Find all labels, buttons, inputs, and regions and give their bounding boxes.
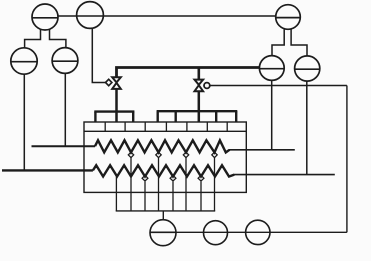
resistor row 2	[93, 165, 234, 176]
terminal strip cell dividers	[105, 122, 227, 131]
tap diamond row 1 d	[212, 152, 217, 157]
wire C drop to lower bus	[23, 74, 25, 169]
wire row 1 right lead	[229, 149, 295, 151]
wire lower left bus to row 2	[2, 169, 93, 171]
instrument circle C	[11, 48, 37, 74]
wire bottom bus	[116, 210, 216, 212]
tap diamond row 2 b	[170, 175, 176, 181]
tap diamond row 1 a	[128, 152, 133, 157]
resistor row 1	[95, 140, 230, 152]
wire right rail down	[346, 86, 348, 233]
instrument circle E	[276, 5, 301, 30]
wire V2 stem from supply bar	[198, 68, 201, 80]
wire stem from bus to H	[162, 211, 164, 220]
wire thick supply bar linking V1, V2 and F	[117, 68, 260, 78]
instrument circle B	[77, 2, 104, 29]
valve V2 actuator circle	[204, 83, 210, 89]
instrument circle F	[259, 56, 284, 81]
wire bottom run H to right rail	[176, 231, 347, 233]
wire V1 stem down through clamp 1	[115, 89, 118, 122]
tap diamond row 1 c	[183, 152, 188, 157]
tap diamond row 2 c	[198, 175, 204, 181]
instrument circle A	[32, 4, 58, 30]
wire F drop to resistor row 1 lead	[271, 80, 273, 149]
wire upper left bus to row 1	[32, 145, 96, 147]
wire tap drops to bottom bus	[116, 158, 214, 211]
tap diamond row 2 a	[142, 175, 148, 181]
clamp bus 2	[157, 111, 238, 122]
instrument circle D	[52, 48, 78, 74]
instrument circle J	[246, 220, 270, 244]
heater box terminal strip divider	[84, 130, 246, 132]
wire from V2 actuator to right rail	[210, 85, 347, 87]
manifold fork from A to C and D	[25, 29, 66, 47]
wire row 2 right lead	[234, 174, 335, 176]
heater box outline	[84, 122, 246, 192]
wire top header A-B-E	[58, 15, 277, 17]
instrument circle H	[150, 220, 176, 246]
wire G drop to resistor row 2 lead	[306, 81, 308, 175]
valve V1 body	[112, 77, 121, 89]
wire V2 stem down through clamp 2	[198, 91, 201, 122]
wire from B down and over to valve V1 actuator	[92, 28, 105, 82]
clamp bus 1	[94, 112, 134, 123]
instrument circle G	[295, 56, 320, 81]
instrument circle I	[204, 221, 228, 245]
wire D drop to upper bus	[64, 73, 66, 145]
tap diamond row 1 b	[156, 152, 161, 157]
valve V2 body	[195, 80, 204, 92]
valve V1 actuator diamond	[106, 79, 112, 85]
manifold fork from E to F and G	[272, 29, 307, 56]
